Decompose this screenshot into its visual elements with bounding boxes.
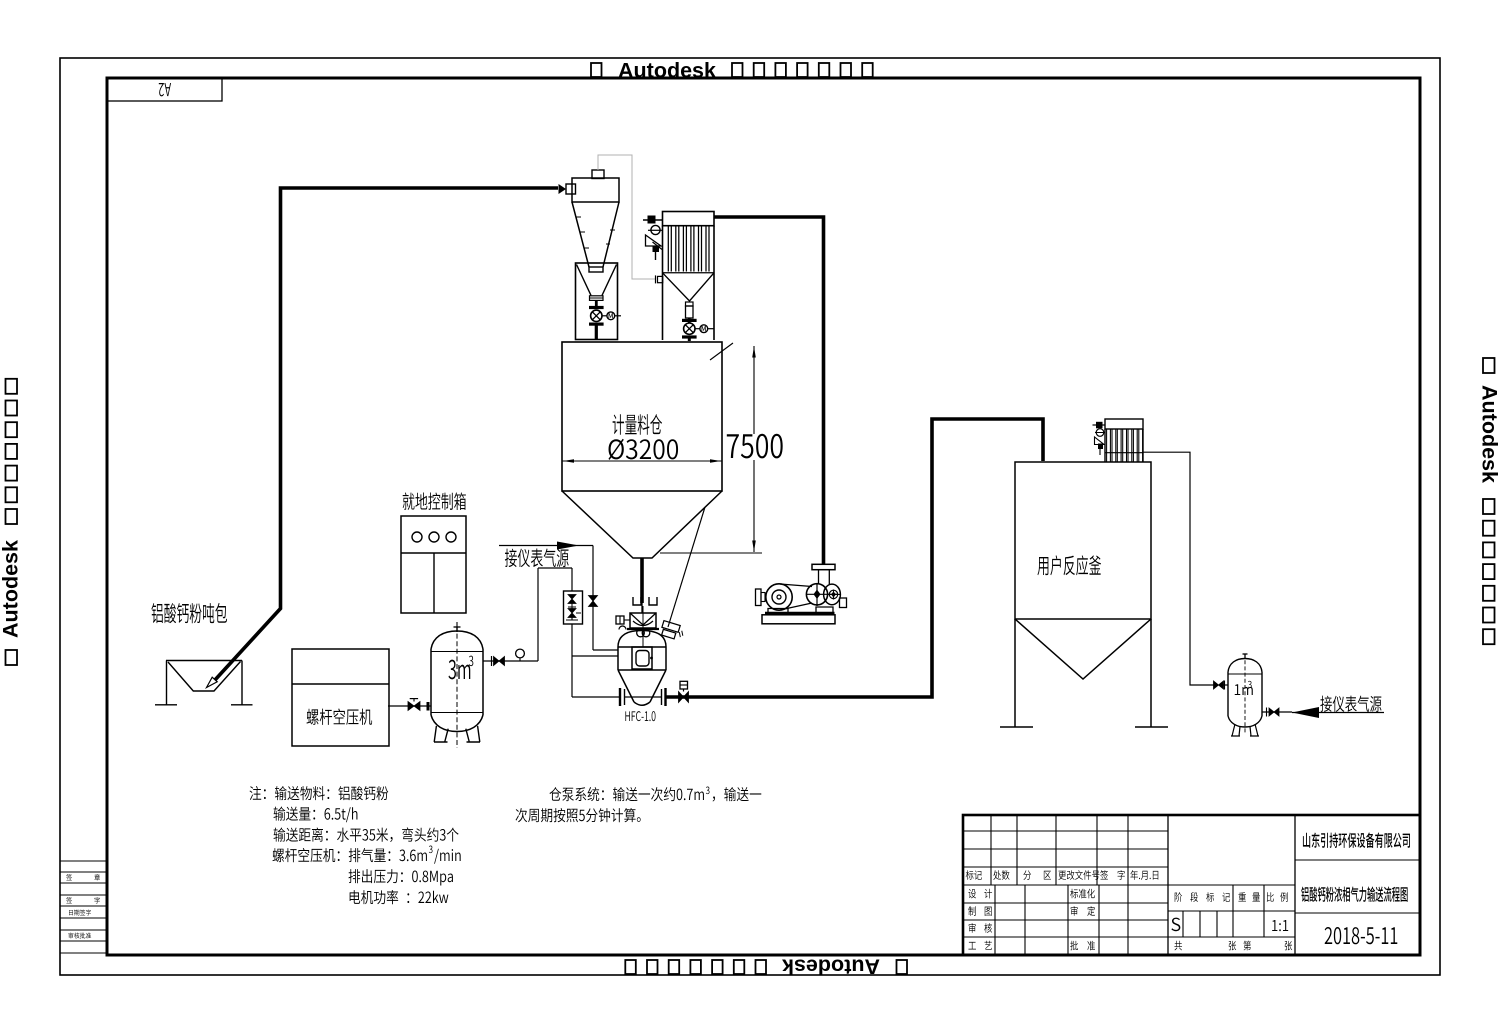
control box: [401, 516, 466, 613]
dimension 7500: [753, 346, 755, 552]
bin pump outlet flanges: [619, 688, 621, 706]
air line: tank loop: [538, 568, 572, 661]
watermark top: [591, 59, 873, 83]
label: HFC-1.0: [625, 711, 655, 721]
1m3 tank top nozzle: [1244, 654, 1246, 658]
compressor discharge line: [388, 705, 431, 707]
binding strip tiny labels: [66, 874, 72, 880]
control box lamps: [412, 532, 422, 542]
cyclone receiver bin: [576, 263, 618, 340]
vent filter housing: [1105, 419, 1143, 429]
blower discharge neck and flange: [819, 570, 830, 585]
title block signature rows: [963, 903, 1168, 937]
bin pump top flange: [627, 628, 659, 630]
bin pump feed valve: [630, 613, 656, 628]
tank outlet valve and gauge: [483, 660, 538, 662]
cyclone inlet gate: [559, 184, 567, 194]
watermark right (rotated 90): [1478, 358, 1500, 644]
reaction vessel cone: [1015, 619, 1151, 679]
metering silo body: [562, 342, 722, 491]
ton bag legs: [167, 661, 243, 705]
A2 sheet-size box: [107, 78, 222, 101]
bin pump inlet flex couplings: [633, 597, 641, 605]
metering silo cone: [562, 491, 722, 558]
blower motor: [766, 584, 792, 610]
tank legs: [434, 726, 448, 742]
bag filter hopper cone: [663, 273, 715, 301]
cyclone cone: [572, 202, 619, 267]
bag filter inlet nozzle: [658, 276, 663, 282]
svg-text:Autodesk: Autodesk: [618, 59, 716, 83]
blower pedestals: [768, 607, 833, 613]
bag filter rotary feeder valve: [688, 318, 691, 323]
bin pump feed valve solenoid: [616, 616, 624, 624]
pipe: HFC pump outlet to reaction vessel: [666, 419, 1043, 697]
inner drawing frame: [107, 78, 1420, 955]
stage letter S and scale: [1171, 918, 1180, 932]
signature labels: [968, 889, 976, 898]
vent filter pulse-jet assembly: [1093, 424, 1106, 426]
air line: label to pump upper inlet: [592, 546, 594, 651]
bin pump vessel dome: [618, 631, 666, 648]
stage/weight/scale labels: [1175, 892, 1182, 902]
title block revision table: [963, 831, 1168, 885]
svg-text:Autodesk: Autodesk: [0, 540, 23, 638]
1m3 tank legs: [1231, 724, 1240, 736]
bag filter pulse-jet assembly: [643, 219, 662, 221]
svg-text:Autodesk: Autodesk: [782, 955, 880, 979]
notes block left: [250, 786, 389, 800]
pipe: bag filter to blower: [714, 217, 824, 565]
label: metering silo: [613, 414, 662, 435]
label: screw compressor: [307, 709, 373, 725]
roots blower base plate: [762, 615, 835, 624]
bin pump vessel body: [618, 647, 666, 670]
air filter-regulator set: [564, 591, 583, 624]
bag filter housing: [663, 212, 715, 226]
label: 1m3: [1235, 684, 1253, 695]
title block middle section: [1168, 885, 1295, 937]
title block outline: [963, 815, 1420, 955]
receiver rotary feeder valve: [595, 301, 598, 308]
bin pump sight window: [632, 647, 652, 669]
label: 3m3: [448, 660, 470, 680]
instrument air source label (left): [499, 545, 593, 547]
bag filter discharge neck: [686, 302, 694, 306]
air line: regulator to pump: [572, 624, 619, 697]
watermark left (rotated -90): [0, 379, 23, 665]
label: reaction vessel: [1037, 555, 1101, 575]
tank top nozzle: [456, 627, 458, 632]
screw compressor box: [292, 649, 389, 746]
revision header labels: [966, 870, 982, 880]
cyclone separator: [572, 178, 619, 202]
instrument air source label (right): [1292, 707, 1319, 718]
1m3 tank right valve: [1262, 711, 1292, 713]
bypass flex coupling: [660, 621, 686, 641]
date 2018-5-11: [1325, 927, 1398, 944]
label: ton bag: [151, 603, 227, 623]
3m3 air receiver tank: [431, 631, 483, 649]
dimension Ø3200: [562, 460, 722, 462]
bin pump cone: [618, 670, 666, 702]
blower belt: [780, 584, 812, 610]
pipe: silo outlet: [640, 558, 644, 603]
notes block right: [549, 787, 704, 801]
title block right section: [1295, 860, 1420, 913]
label: control box: [403, 493, 466, 510]
svg-text:Autodesk: Autodesk: [1478, 385, 1500, 483]
sheet count labels: [1174, 941, 1182, 951]
company name: [1303, 832, 1410, 847]
bag filter bags: [663, 227, 715, 273]
binding strip table: [60, 861, 107, 953]
blower pump head: [806, 584, 827, 605]
1m3 instrument air tank: [1228, 659, 1262, 673]
silo-to-pump bypass diagonal: [668, 507, 705, 627]
ton bag hopper: [166, 660, 242, 662]
reaction vessel legs: [1015, 619, 1151, 727]
pipe: ton-bag to cyclone inlet: [215, 188, 559, 681]
outlet valve with actuator: [679, 692, 689, 703]
cyclone overflow line to bag filter: [598, 155, 655, 279]
reaction vessel body: [1015, 462, 1151, 619]
vent line to 1m3 tank: [1143, 452, 1214, 685]
drawing title: [1301, 886, 1407, 901]
watermark bottom (rotated 180): [625, 955, 907, 979]
